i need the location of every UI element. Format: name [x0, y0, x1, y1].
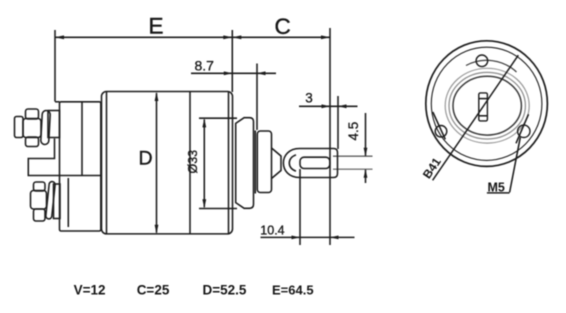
screw hole top — [476, 55, 488, 67]
svg-text:C: C — [275, 14, 291, 39]
body seam left — [106, 92, 108, 234]
front bushing — [236, 118, 254, 209]
terminal stud top: boss — [48, 111, 60, 138]
svg-text:3: 3 — [305, 91, 313, 106]
terminal stud top: spring washer — [41, 110, 51, 144]
extension line 8.7 right at boot disc — [256, 64, 258, 131]
plunger eye slot — [300, 157, 330, 168]
arrow C left — [232, 35, 241, 39]
arrow 10.4 left — [292, 236, 301, 240]
terminal stud bottom: hex nut upper band — [34, 182, 46, 191]
terminal stud top: bolt tip — [15, 117, 24, 138]
svg-text:E: E — [149, 14, 164, 39]
right screw tick — [516, 114, 529, 143]
dimension 4.5 vertical line lower — [365, 169, 367, 183]
terminal stud bottom: spring washer — [46, 181, 56, 219]
svg-text:C=25: C=25 — [137, 282, 170, 297]
plunger eye inner cap arc — [289, 155, 296, 171]
svg-text:D: D — [139, 148, 153, 170]
dimension line 8.7 — [191, 72, 276, 74]
svg-text:8.7: 8.7 — [195, 57, 215, 73]
svg-text:E=64.5: E=64.5 — [272, 282, 314, 297]
dimension diameter33 arrow — [203, 120, 205, 208]
dimension D arrow — [156, 93, 158, 233]
extension line diameter 33 top — [199, 117, 237, 119]
arrow 4.5 bottom — [364, 169, 368, 178]
arrow C right — [321, 35, 330, 39]
bolt circle arc near top screw — [466, 60, 517, 72]
plunger eye outer — [283, 149, 337, 178]
cone neck — [280, 156, 282, 172]
cone lower — [272, 171, 282, 179]
cap seam — [81, 102, 83, 176]
cap ring 2 — [449, 72, 525, 139]
M5 underline — [487, 192, 510, 194]
svg-text:Ø33: Ø33 — [186, 150, 200, 174]
extension line diameter 33 bottom — [199, 208, 237, 210]
dimension line 3 — [299, 105, 358, 107]
body seam middle — [189, 92, 191, 234]
arrow E left — [55, 35, 64, 39]
boot retainer front line — [254, 131, 256, 194]
svg-text:V=12: V=12 — [74, 282, 106, 297]
terminal stud bottom: hex nut lower band — [34, 209, 46, 221]
B41 leader line — [433, 55, 519, 180]
screw hole right — [518, 125, 530, 137]
end view slot inner top line — [479, 98, 488, 100]
end view outer circle — [426, 41, 548, 167]
cap ring 3 — [453, 76, 521, 135]
terminal stud top: hex nut middle band — [23, 119, 41, 138]
extension line 10.4 left at slot start — [299, 169, 301, 245]
dimension line 10.4 — [261, 236, 355, 238]
left screw tick — [433, 112, 446, 139]
M5 leader line — [510, 137, 521, 192]
dimension line E-C — [55, 36, 330, 38]
screw hole left — [435, 126, 447, 138]
end view slot — [479, 93, 488, 121]
extension line left of E at cap face — [54, 30, 56, 102]
extension line 4.5 top (slot top) — [333, 155, 373, 157]
svg-text:D=52.5: D=52.5 — [203, 282, 247, 297]
extension line 3 right at eye tip — [337, 96, 339, 149]
arrow 10.4 right — [330, 236, 339, 240]
extension line C right end — [329, 28, 331, 245]
arrow 4.5 top — [364, 148, 368, 157]
svg-text:4.5: 4.5 — [346, 122, 361, 141]
cap ring 1 — [445, 68, 529, 143]
cone upper — [272, 148, 282, 156]
dimension 4.5 vertical line upper — [365, 113, 367, 156]
end view slot inner bottom line — [479, 115, 488, 117]
body seam right — [228, 92, 230, 234]
terminal stud top: hex nut lower band — [26, 137, 39, 147]
boot disc — [257, 131, 271, 193]
svg-text:10.4: 10.4 — [260, 224, 284, 238]
arrow E right — [223, 35, 232, 39]
bakelite cap — [60, 102, 101, 231]
arrow 3 left — [322, 104, 331, 108]
extension line 4.5 bottom (slot bottom) — [333, 168, 373, 170]
arrow 8.7 right — [257, 71, 266, 75]
end view flange circle — [431, 47, 542, 160]
arrow 3 right — [338, 104, 347, 108]
arrow 8.7 left — [224, 71, 233, 75]
cap top lip to E line — [55, 101, 60, 103]
terminal stud bottom: hex nut middle band — [31, 191, 47, 210]
cap lower step line — [67, 178, 69, 227]
extension line E/C boundary at body end — [231, 30, 233, 92]
svg-text:B41: B41 — [420, 155, 444, 181]
mounting bracket — [28, 139, 101, 176]
terminal stud bottom: boss — [54, 184, 61, 219]
solenoid body — [102, 92, 233, 234]
terminal stud top: hex nut upper band — [26, 109, 39, 119]
